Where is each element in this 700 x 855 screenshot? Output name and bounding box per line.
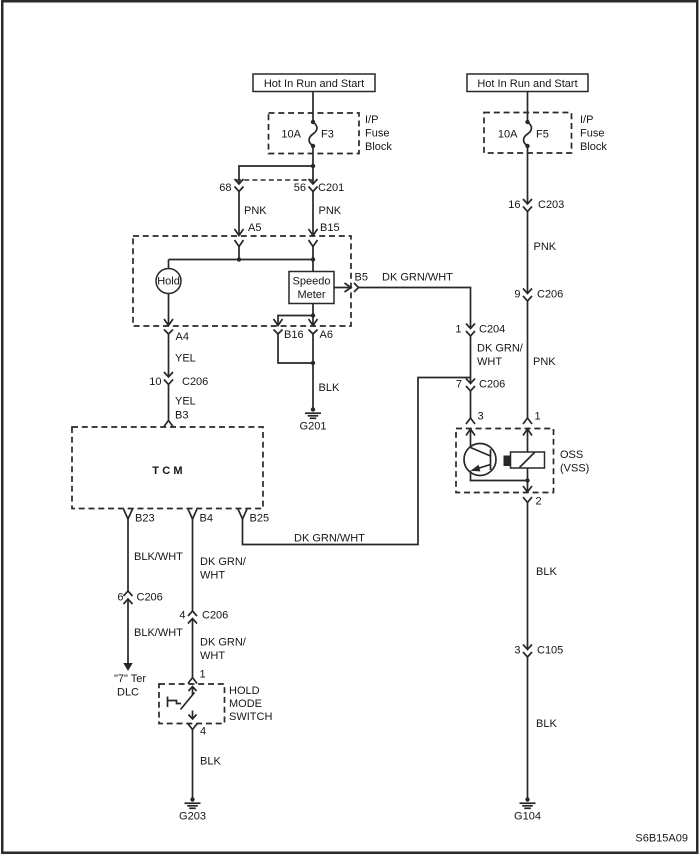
svg-text:A6: A6 — [320, 329, 333, 341]
connector C206 pin 4 (up) — [188, 611, 197, 624]
wire: DK GRN/WHT from C206 to hold mode switch pin 1 — [192, 619, 194, 678]
svg-text:YEL: YEL — [175, 396, 196, 408]
svg-text:B23: B23 — [135, 513, 155, 525]
svg-text:F5: F5 — [536, 128, 549, 140]
svg-text:C206: C206 — [137, 592, 163, 604]
arrow out of OSS at pin 2 — [523, 486, 532, 492]
junction A5/bus — [237, 257, 241, 261]
connector C206 pin 7 — [466, 379, 475, 392]
svg-text:C201: C201 — [318, 182, 344, 194]
pin B3 half-connector at TCM — [164, 421, 173, 427]
svg-text:DK GRN/: DK GRN/ — [477, 343, 524, 355]
connector C203 pin 16 — [523, 199, 532, 212]
connector C201 dashed link — [236, 179, 313, 181]
svg-text:PNK: PNK — [244, 205, 267, 217]
svg-text:A4: A4 — [176, 331, 189, 343]
svg-text:A5: A5 — [248, 222, 261, 234]
connector C206 pin 6 (up) — [124, 591, 133, 604]
pin A6 half-connector below cluster — [309, 330, 318, 335]
svg-text:PNK: PNK — [319, 205, 342, 217]
pin 3 half-connector above OSS — [466, 418, 475, 424]
svg-text:Hot In Run and Start: Hot In Run and Start — [477, 78, 577, 90]
svg-text:3: 3 — [514, 645, 520, 657]
pin B16 half-connector below cluster — [274, 330, 283, 335]
svg-text:Speedo: Speedo — [293, 276, 331, 288]
wire: PNK from C206 to OSS pin 1 — [527, 301, 529, 418]
svg-text:"7" Ter: "7" Ter — [114, 673, 146, 685]
svg-text:4: 4 — [179, 610, 185, 622]
svg-text:PNK: PNK — [534, 241, 557, 253]
pin 1 half-connector above OSS — [523, 418, 532, 424]
wire: DK GRN/WHT from B4 to connector C206 pin 4 — [192, 519, 194, 611]
svg-text:BLK: BLK — [319, 382, 340, 394]
svg-text:G104: G104 — [514, 811, 541, 823]
wire: C206 pin 7 to OSS pin 3 — [470, 391, 472, 418]
wire: DK GRN/WHT from B5 to connector C204 — [359, 288, 471, 329]
node: Hot In Run and Start (left) — [253, 74, 375, 92]
pin B15 half-connector inside cluster — [309, 240, 318, 247]
wire: PNK from 56 to cluster pin B15 — [312, 192, 314, 236]
wire: BLK/WHT from B23 to connector C206 pin 6 — [127, 519, 129, 591]
svg-text:6: 6 — [117, 592, 123, 604]
junction below F3 — [311, 164, 315, 168]
svg-text:Fuse: Fuse — [580, 128, 604, 140]
I/P Fuse Block (right, contains F5) — [484, 113, 572, 154]
OSS (VSS) dashed box — [456, 429, 554, 493]
fuse F5 10A — [524, 120, 532, 148]
svg-text:Meter: Meter — [297, 289, 325, 301]
arrow into cluster at A5 — [235, 229, 244, 236]
pin 1 half-connector above switch — [188, 678, 197, 684]
switch arrow down (pin 4 side) — [189, 711, 197, 720]
svg-text:PNK: PNK — [533, 356, 556, 368]
pin B25 half-connector below TCM — [238, 509, 247, 519]
svg-text:BLK: BLK — [200, 756, 221, 768]
svg-text:WHT: WHT — [200, 570, 225, 582]
wire: BLK from C105 to ground G104 — [527, 657, 529, 799]
HOLD MODE SWITCH dashed box — [159, 684, 225, 724]
svg-text:S6B15A09: S6B15A09 — [635, 833, 688, 845]
svg-text:Hot In Run and Start: Hot In Run and Start — [264, 78, 364, 90]
ground G201 — [305, 407, 321, 418]
svg-text:I/P: I/P — [365, 114, 378, 126]
svg-text:G203: G203 — [179, 811, 206, 823]
I/P Fuse Block (left, contains F3) — [269, 113, 360, 154]
arrow into cluster at B15 — [309, 229, 318, 236]
svg-text:YEL: YEL — [175, 353, 196, 365]
connector C206 pin 9 — [523, 289, 532, 302]
svg-text:C206: C206 — [202, 610, 228, 622]
svg-text:1: 1 — [200, 669, 206, 681]
svg-text:C206: C206 — [537, 289, 563, 301]
pin B5 half-connector outside cluster — [354, 283, 359, 292]
svg-text:Block: Block — [365, 141, 392, 153]
connector C105 pin 3 — [523, 645, 532, 658]
connector C206 pin 10 — [164, 372, 173, 385]
speed sensor element — [504, 452, 545, 468]
svg-text:WHT: WHT — [477, 356, 502, 368]
svg-text:G201: G201 — [300, 421, 327, 433]
svg-text:16: 16 — [508, 199, 520, 211]
wire: Speedo Meter output to pin B5 — [334, 287, 351, 289]
svg-text:1: 1 — [535, 411, 541, 423]
node: Hot In Run and Start (right) — [467, 74, 588, 92]
TCM dashed box — [72, 427, 263, 509]
pin 4 half-connector below switch — [188, 724, 197, 730]
wire: BLK from switch to ground G203 — [192, 730, 194, 800]
wire: fuse F3 to junction and down to connector C201 — [312, 146, 314, 184]
svg-text:B3: B3 — [175, 410, 188, 422]
svg-text:C203: C203 — [538, 199, 564, 211]
svg-text:68: 68 — [219, 182, 231, 194]
wire: cluster bus — [169, 259, 314, 261]
connector C201 pin 56 — [309, 179, 318, 192]
wire: YEL from C206 to TCM pin B3 — [168, 385, 170, 421]
wire: DK GRN/WHT from B25 over to C206 pin 7 riser — [243, 378, 471, 545]
fuse F3 10A — [309, 120, 317, 148]
junction B15/bus — [311, 257, 315, 261]
junction B16/A6 — [311, 361, 315, 365]
pin 3 arrow inside OSS — [466, 429, 475, 448]
svg-text:1: 1 — [455, 324, 461, 336]
svg-text:Hold: Hold — [157, 276, 180, 288]
svg-text:C204: C204 — [479, 324, 505, 336]
svg-text:BLK/WHT: BLK/WHT — [134, 627, 183, 639]
wire: B15 down to Speedo Meter — [312, 247, 314, 272]
connector C201 pin 68 — [235, 179, 244, 192]
wire: PNK from C203 to connector C206 pin 9 — [527, 212, 529, 294]
svg-text:BLK: BLK — [536, 566, 557, 578]
svg-text:10A: 10A — [281, 128, 301, 140]
arrow out of cluster at B5 — [345, 283, 352, 292]
svg-text:OSS: OSS — [560, 449, 583, 461]
svg-text:BLK: BLK — [536, 718, 557, 730]
svg-text:I/P: I/P — [580, 114, 593, 126]
transistor Q (output driver) — [464, 444, 528, 481]
switch arrow up (pin 1 side) — [189, 687, 197, 695]
arrow to "7" Ter DLC — [123, 663, 132, 671]
svg-text:B5: B5 — [355, 272, 368, 284]
wire: bus down to Hold lamp — [168, 260, 170, 269]
svg-text:DK GRN/: DK GRN/ — [200, 556, 247, 568]
wire: sensor to junction — [527, 468, 529, 492]
svg-text:10: 10 — [149, 376, 161, 388]
wire: PNK from 68 to cluster pin A5 — [238, 192, 240, 236]
pin B23 half-connector below TCM — [124, 509, 133, 519]
svg-text:DK GRN/: DK GRN/ — [200, 637, 247, 649]
wire: left feed from Hot box to fuse F3 — [312, 92, 314, 123]
svg-text:HOLD: HOLD — [229, 685, 260, 697]
ground G104 — [520, 797, 536, 808]
svg-text:C105: C105 — [537, 645, 563, 657]
arrow out of cluster at A6 — [309, 319, 318, 326]
wire: B16 loop to A6 ground lead — [278, 334, 313, 363]
wire: Speedo Meter bottom to junction — [312, 304, 314, 316]
svg-text:B4: B4 — [200, 513, 213, 525]
wire: A5 down to bus — [238, 247, 240, 260]
pin 1 arrow inside OSS — [523, 429, 532, 452]
wire: BLK from pin 2 to connector C105 — [527, 503, 529, 650]
wire: BLK ground lead to G201 — [312, 334, 314, 410]
arrow out of cluster at B16 — [274, 319, 283, 326]
pin B4 half-connector below TCM — [188, 509, 197, 519]
svg-text:9: 9 — [514, 289, 520, 301]
junction emitter/sensor return — [525, 478, 529, 482]
instrument cluster dashed box (Hold lamp + Speedo Meter) — [133, 236, 351, 326]
svg-text:(VSS): (VSS) — [560, 463, 589, 475]
wire: Hold lamp to pin A4 — [168, 294, 170, 326]
wire: BLK/WHT from C206 to DLC arrow — [127, 600, 129, 664]
svg-text:MODE: MODE — [229, 698, 262, 710]
svg-text:BLK/WHT: BLK/WHT — [134, 551, 183, 563]
Hold indicator lamp — [156, 269, 181, 294]
svg-text:C206: C206 — [479, 379, 505, 391]
svg-text:B15: B15 — [320, 222, 340, 234]
svg-text:DLC: DLC — [117, 687, 139, 699]
svg-text:2: 2 — [536, 496, 542, 508]
pin A5 half-connector inside cluster — [235, 240, 244, 247]
wire: YEL from A4 to connector C206 pin 10 — [164, 330, 173, 335]
svg-text:TCM: TCM — [152, 465, 185, 477]
svg-text:WHT: WHT — [200, 650, 225, 662]
svg-text:56: 56 — [294, 182, 306, 194]
svg-text:DK GRN/WHT: DK GRN/WHT — [294, 533, 365, 545]
svg-text:7: 7 — [456, 379, 462, 391]
svg-text:F3: F3 — [321, 128, 334, 140]
wire: down to pin A6 — [312, 316, 314, 326]
svg-text:B25: B25 — [250, 513, 270, 525]
wire: right feed from Hot box to fuse F5 — [527, 92, 529, 123]
svg-text:C206: C206 — [182, 376, 208, 388]
svg-text:3: 3 — [478, 411, 484, 423]
wire: fuse F5 to connector C203 — [527, 146, 529, 204]
svg-text:10A: 10A — [498, 128, 518, 140]
svg-text:4: 4 — [200, 726, 206, 738]
svg-text:Fuse: Fuse — [365, 128, 389, 140]
pin 2 half-connector below OSS — [523, 497, 532, 503]
ground G203 — [185, 797, 201, 808]
svg-text:B16: B16 — [284, 329, 304, 341]
svg-text:SWITCH: SWITCH — [229, 711, 272, 723]
connector C204 pin 1 — [466, 324, 475, 337]
wire: branch left to pin 68 — [239, 166, 313, 184]
Speedo Meter box — [289, 272, 334, 304]
hold mode switch contacts — [168, 693, 195, 710]
wire: C204 to C206 pin 7 (DK GRN/WHT) — [470, 336, 472, 384]
arrow out of cluster at A4 — [164, 319, 173, 326]
wire: branch to pin B16 — [278, 316, 313, 326]
junction below Speedo Meter — [311, 313, 315, 317]
svg-text:Block: Block — [580, 141, 607, 153]
svg-text:DK GRN/WHT: DK GRN/WHT — [382, 272, 453, 284]
